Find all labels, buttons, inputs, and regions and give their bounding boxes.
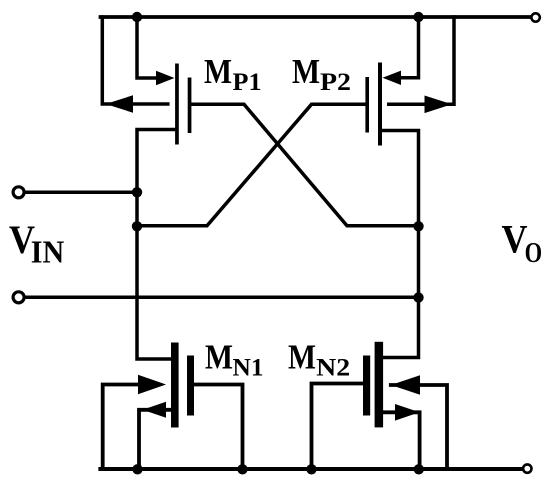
svg-text:M: M <box>288 338 316 377</box>
svg-text:N1: N1 <box>233 355 264 382</box>
svg-text:M: M <box>205 338 233 377</box>
svg-text:P1: P1 <box>233 69 262 96</box>
svg-text:IN: IN <box>31 234 65 270</box>
svg-text:N2: N2 <box>316 355 350 382</box>
svg-text:O: O <box>525 238 543 269</box>
svg-text:M: M <box>204 52 232 91</box>
svg-text:P2: P2 <box>320 69 351 96</box>
svg-text:M: M <box>292 52 320 91</box>
